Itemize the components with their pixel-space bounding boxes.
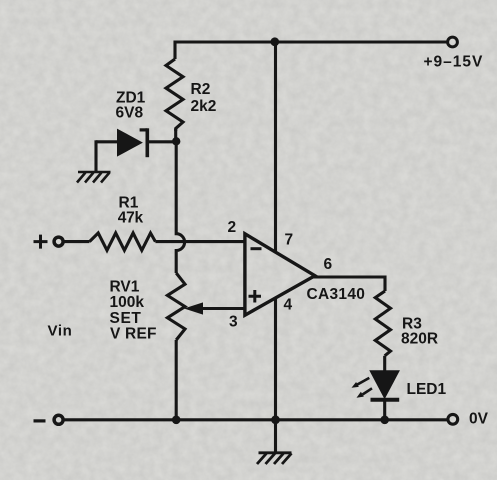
wire RV1 bottom lead bbox=[175, 340, 178, 420]
label R2 value bbox=[191, 81, 217, 115]
op-amp U1 CA3140 bbox=[245, 234, 315, 315]
wire op-amp output pin 6 bbox=[313, 277, 385, 291]
wire + terminal to R1 bbox=[64, 240, 90, 243]
LED LED1 bbox=[371, 371, 400, 400]
wire R2 top lead bbox=[173, 41, 176, 60]
wire zener cathode to node bbox=[147, 140, 173, 143]
resistor R1 bbox=[90, 233, 156, 250]
label CA3140 bbox=[307, 286, 366, 303]
wire supply vertical upper (pin 7) bbox=[274, 42, 277, 253]
wire vertical branch with hop over R1 wire bbox=[176, 141, 184, 273]
wire zener anode lead bbox=[96, 140, 120, 143]
label pin 6 bbox=[324, 256, 333, 273]
terminal + input bbox=[34, 235, 64, 249]
label pin 3 bbox=[229, 314, 238, 331]
node supply vertical / rail junction bbox=[271, 415, 280, 424]
wire R3 to LED1 bbox=[383, 356, 386, 372]
wire ground riser for ZD1 bbox=[94, 140, 97, 172]
svg-text:820R: 820R bbox=[401, 330, 438, 347]
svg-text:7: 7 bbox=[285, 232, 294, 249]
terminal 0V bbox=[448, 414, 458, 424]
node RV1 / rail junction bbox=[172, 416, 181, 425]
svg-text:6: 6 bbox=[324, 256, 333, 273]
label +9-15V bbox=[424, 54, 484, 71]
potentiometer RV1 wiper arrow bbox=[184, 302, 246, 314]
terminal - input bbox=[34, 415, 64, 424]
label Vin bbox=[48, 323, 73, 340]
svg-text:SET: SET bbox=[110, 310, 142, 327]
svg-text:0V: 0V bbox=[469, 411, 489, 428]
svg-text:R2: R2 bbox=[191, 81, 211, 98]
label R1 value bbox=[118, 195, 144, 227]
wire top supply rail bbox=[175, 40, 447, 43]
op-amp minus input marking bbox=[251, 247, 262, 250]
wire R1 to op-amp pin 2 bbox=[155, 240, 245, 243]
LED1 emission arrows bbox=[352, 378, 373, 398]
op-amp plus input marking bbox=[249, 290, 262, 303]
svg-text:CA3140: CA3140 bbox=[307, 286, 366, 303]
svg-text:100k: 100k bbox=[110, 294, 145, 311]
wire ground stub below rail bbox=[274, 420, 277, 453]
wire LED1 cathode to rail bbox=[383, 400, 386, 420]
label ZD1 value bbox=[116, 90, 146, 122]
resistor R3 bbox=[375, 291, 390, 356]
resistor R2 bbox=[166, 59, 183, 131]
svg-text:+9–15V: +9–15V bbox=[424, 54, 484, 71]
svg-text:4: 4 bbox=[284, 296, 293, 313]
label RV1 value bbox=[110, 279, 157, 343]
label pin 2 bbox=[228, 219, 237, 236]
label R3 value bbox=[401, 316, 438, 348]
terminal +9-15V bbox=[448, 37, 458, 47]
svg-text:47k: 47k bbox=[118, 209, 144, 226]
ground (ZD1 anode) bbox=[77, 172, 111, 183]
svg-text:2k2: 2k2 bbox=[191, 98, 217, 115]
node zener / R2 junction bbox=[172, 137, 180, 145]
wire bottom rail bbox=[64, 418, 448, 421]
node LED branch / rail junction bbox=[380, 416, 389, 425]
svg-text:LED1: LED1 bbox=[407, 381, 447, 398]
svg-text:V REF: V REF bbox=[110, 326, 157, 343]
wire R2 bottom lead to zener node bbox=[174, 129, 177, 141]
label pin 4 bbox=[284, 296, 293, 313]
svg-text:Vin: Vin bbox=[48, 323, 73, 340]
svg-text:3: 3 bbox=[229, 314, 238, 331]
ground (bottom rail) bbox=[257, 453, 292, 464]
zener diode ZD1 bbox=[118, 128, 147, 157]
potentiometer RV1 body bbox=[167, 273, 185, 340]
wire supply vertical lower (pin 4) bbox=[274, 299, 277, 421]
label LED1 bbox=[407, 381, 447, 398]
svg-text:6V8: 6V8 bbox=[116, 105, 144, 122]
node top rail junction bbox=[270, 37, 279, 46]
label 0V bbox=[469, 411, 489, 428]
label pin 7 bbox=[285, 232, 294, 249]
svg-text:2: 2 bbox=[228, 219, 237, 236]
